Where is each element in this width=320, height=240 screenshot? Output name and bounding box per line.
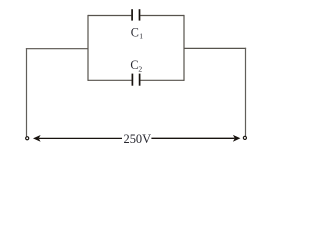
label C2 xyxy=(130,58,142,74)
dimension line right segment xyxy=(151,137,234,139)
terminal: left open circle xyxy=(26,137,29,140)
svg-text:2: 2 xyxy=(138,65,142,74)
wire: rectangle left edge xyxy=(87,15,89,81)
wire: rectangle bottom edge left of C2 xyxy=(88,79,132,81)
dimension arrowhead right xyxy=(233,135,241,142)
svg-text:C: C xyxy=(130,58,138,72)
terminal: right open circle xyxy=(243,136,246,139)
svg-text:250V: 250V xyxy=(124,131,152,146)
wire: rectangle bottom edge right of C2 xyxy=(140,79,184,81)
wire: left horizontal lead xyxy=(26,48,88,50)
wire: rectangle top edge left of C1 xyxy=(88,15,131,17)
wire: rectangle top edge right of C1 xyxy=(140,15,184,17)
wire: rectangle right edge xyxy=(183,15,185,81)
dimension line left segment xyxy=(39,137,122,139)
svg-text:1: 1 xyxy=(139,31,143,40)
capacitor C2 xyxy=(132,74,139,86)
label C1 xyxy=(131,25,144,40)
wire: left vertical lead xyxy=(26,48,28,136)
wire: right horizontal lead xyxy=(184,47,246,49)
wire: right vertical lead xyxy=(245,48,247,136)
dimension arrowhead left xyxy=(33,135,41,142)
svg-text:C: C xyxy=(131,25,139,39)
capacitor C1 xyxy=(132,9,139,20)
